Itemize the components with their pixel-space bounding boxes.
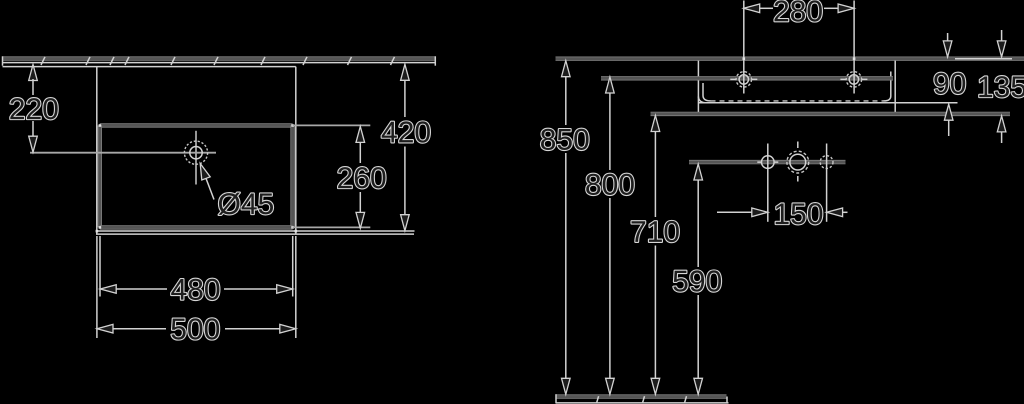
dimension text 220 bbox=[10, 98, 57, 119]
dimension 220 bbox=[29, 65, 38, 81]
dimension 480 bbox=[100, 285, 116, 294]
tap hole extension verticals from 280 dim bbox=[743, 1, 745, 94]
mounting line (thick) bbox=[689, 160, 846, 164]
dimension 90 bbox=[947, 33, 949, 42]
tap hole outer dashed circle bbox=[184, 141, 207, 164]
tap hole centerline horizontal bbox=[30, 152, 216, 154]
basin front edge lower line bbox=[96, 233, 414, 235]
dimension 135 bbox=[1001, 30, 1003, 42]
leader line for hole diameter bbox=[206, 178, 214, 199]
wall section line (thick) bbox=[2, 56, 436, 60]
basin left bottom curve bbox=[698, 97, 706, 103]
node dots on wall line bbox=[743, 57, 746, 60]
bowl hidden bottom line (dashed) bbox=[711, 100, 884, 102]
floor lower line (thin) bbox=[556, 402, 729, 404]
floor end caps bbox=[555, 394, 557, 403]
wall bottom edge (thin) bbox=[3, 62, 436, 64]
dimension text 150 bbox=[776, 203, 823, 224]
dimension 280 bbox=[744, 4, 760, 13]
mounting hole left bbox=[762, 156, 775, 169]
bowl corner node dots bbox=[96, 124, 298, 232]
dimension text 590 bbox=[673, 270, 721, 291]
bowl right edge (thick) bbox=[290, 125, 294, 227]
tap deck line (thick) bbox=[601, 76, 893, 80]
right tap hole bbox=[849, 75, 858, 84]
dimension text 135 bbox=[979, 76, 1024, 97]
tap hole inner circle bbox=[190, 147, 202, 159]
extension of bowl bottom edge to 260 dim bbox=[293, 226, 371, 228]
dimension 260 bbox=[356, 126, 365, 142]
dimension text 90 bbox=[934, 73, 965, 94]
basin bottom edge (thin) bbox=[699, 102, 958, 104]
drain level line (thick) bbox=[651, 112, 1011, 116]
basin right inner edge bbox=[884, 72, 891, 101]
mounting hole center bbox=[790, 154, 806, 170]
basin outer right edge bbox=[295, 67, 297, 235]
wall line (thick) bbox=[556, 57, 1024, 61]
tap hole centerline vertical bbox=[195, 131, 197, 185]
basin right edge bbox=[894, 61, 896, 114]
leader arrowhead bbox=[200, 164, 210, 181]
basin front edge upper line bbox=[96, 230, 415, 232]
dimension text 420 bbox=[382, 121, 430, 142]
wall line bright overlay right bbox=[955, 58, 1012, 60]
dimension text 850 bbox=[541, 129, 589, 150]
dimension 420 bbox=[401, 64, 410, 80]
dimension 150 bbox=[717, 211, 753, 213]
dimension 850 bbox=[562, 61, 571, 77]
dimension 800 bbox=[606, 77, 615, 93]
dimension text 260 bbox=[338, 167, 385, 188]
bowl left edge (thick) bbox=[98, 125, 102, 227]
basin left edge bbox=[697, 61, 699, 114]
basin rear edge bbox=[3, 66, 296, 68]
mounting hole right bbox=[820, 156, 833, 169]
wall line end caps bbox=[2, 56, 4, 65]
wall hatch ticks bbox=[41, 57, 395, 65]
dimension text O45 bbox=[219, 193, 273, 215]
dimension 590 bbox=[694, 164, 703, 180]
dimension 500 bbox=[97, 324, 113, 333]
bowl front edge (thick) bbox=[100, 225, 293, 229]
dimension 710 bbox=[651, 116, 660, 132]
bowl rectangle (thick): top bbox=[100, 123, 293, 127]
dimension text 280 bbox=[775, 0, 822, 21]
dimension text 500 bbox=[171, 318, 219, 339]
floor line (thick) bbox=[556, 394, 727, 398]
dimension text 710 bbox=[632, 221, 679, 242]
basin outer left edge bbox=[96, 67, 98, 235]
floor hatch ticks bbox=[597, 396, 687, 403]
basin left inner edge bbox=[703, 83, 711, 101]
dimension text 480 bbox=[171, 279, 219, 300]
dimension text 800 bbox=[586, 174, 634, 195]
extension of bowl top edge to 260 dim bbox=[293, 124, 371, 126]
left tap hole bbox=[739, 75, 748, 84]
extension lines below basin for 480/500 bbox=[99, 236, 101, 297]
